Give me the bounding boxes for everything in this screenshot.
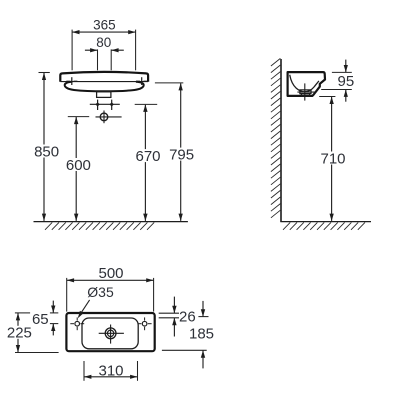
dimension 26 (rim to bowl edge) (173, 297, 175, 314)
floor hatching under side view (283, 222, 365, 229)
svg-text:185: 185 (189, 326, 214, 343)
right fixing hole mark on rim (141, 77, 143, 85)
washbasin front view: rim underside line (60, 81, 148, 83)
bowl inner curve (side view) (290, 75, 319, 92)
svg-text:500: 500 (98, 265, 123, 282)
washbasin front view: bowl underside curve (65, 82, 144, 92)
svg-text:710: 710 (320, 150, 345, 167)
svg-text:225: 225 (7, 325, 32, 342)
right tap hole (plan) (142, 321, 147, 326)
svg-text:95: 95 (338, 73, 355, 90)
dimension 795 (floor to rim underside) (155, 82, 183, 84)
dimension 600 (floor to drain) (68, 116, 89, 118)
dimension 850 (floor to rim height) (39, 72, 50, 74)
dimension 185 (bowl depth) (202, 301, 204, 317)
washbasin front view: rim outline (60, 72, 148, 82)
washbasin plan view: outer rim (66, 313, 154, 351)
floor line under front view (34, 221, 188, 223)
dimension 365 (basin fixing width) (71, 30, 73, 71)
svg-text:365: 365 (93, 18, 116, 33)
svg-text:670: 670 (135, 148, 160, 165)
trap / drain fitting under bowl (97, 92, 111, 98)
dimension 710 (floor to basin underside) (319, 96, 335, 98)
dimension 500 (overall width) (66, 278, 68, 312)
drain crosshair circles (plan) (105, 328, 116, 339)
svg-text:795: 795 (169, 146, 194, 163)
floor line under side view (280, 221, 371, 223)
dimension 95 (rim to apron depth) (332, 71, 352, 73)
washbasin side profile outline (288, 72, 325, 96)
floor hatching under front view (45, 222, 154, 229)
dimension 65 (front edge to tap hole) (52, 301, 54, 313)
svg-text:Ø35: Ø35 (87, 284, 114, 300)
dimension 310 (bowl width) (83, 361, 85, 381)
svg-text:26: 26 (179, 309, 196, 326)
dimension 80 (tap hole spacing) (97, 49, 99, 70)
washbasin plan view: inner bowl (82, 318, 138, 349)
svg-text:850: 850 (34, 143, 59, 160)
wall line (side view) (280, 59, 282, 222)
drain fitting (side view) (300, 90, 311, 94)
drain outlet crosshair circle (front view) (100, 113, 108, 121)
svg-text:310: 310 (98, 362, 123, 379)
svg-text:65: 65 (32, 311, 49, 328)
dimension 670 (floor to fixing holes) (135, 103, 158, 105)
drain centreline crosshair (side view) (304, 83, 306, 100)
left fixing hole mark on rim (71, 77, 73, 85)
fixing bolt centreline with hole marks (90, 103, 120, 105)
svg-text:80: 80 (96, 35, 111, 50)
dimension 225 (overall depth) (15, 312, 30, 314)
wall hatching (271, 58, 281, 217)
svg-text:600: 600 (66, 157, 91, 174)
left tap hole (plan) (75, 321, 80, 326)
